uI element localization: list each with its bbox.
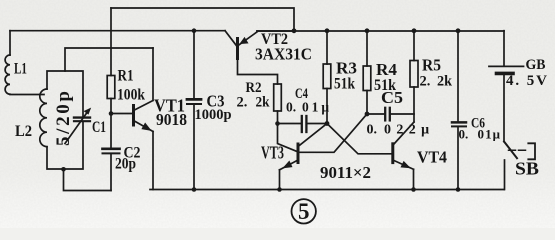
svg-text:GB: GB	[526, 57, 546, 73]
wire R2 to VT3 base	[278, 124, 298, 152]
node tank bottom	[61, 167, 66, 172]
node R3 bottom / VT3 collector	[325, 121, 330, 126]
node R5 top	[412, 28, 417, 33]
svg-text:1000p: 1000p	[195, 107, 232, 123]
transistor VT1 9018	[134, 48, 154, 190]
transistor VT2 3AX31C	[225, 31, 294, 84]
svg-text:100k: 100k	[117, 87, 145, 104]
node C3 top	[192, 28, 197, 33]
wire base VT1	[111, 113, 132, 115]
svg-text:VT3: VT3	[261, 143, 284, 163]
svg-text:0.: 0.	[286, 100, 296, 115]
svg-text:5: 5	[298, 199, 310, 224]
svg-text:5/20p: 5/20p	[53, 91, 74, 146]
wire tank bottom stub	[64, 169, 112, 191]
svg-text:01μ: 01μ	[478, 127, 501, 142]
tank box wires	[47, 71, 83, 169]
resistor R4	[363, 31, 371, 114]
node C6 bottom	[456, 187, 461, 192]
capacitor C2	[103, 114, 120, 191]
resistor R1	[107, 8, 115, 114]
wire bottom rail	[150, 189, 504, 191]
svg-text:9011×2: 9011×2	[320, 163, 371, 182]
resistor R2	[274, 84, 282, 124]
wire top rail upper	[111, 8, 294, 31]
capacitor C3	[187, 31, 201, 190]
capacitor C4	[278, 116, 328, 132]
svg-text:2.: 2.	[237, 95, 248, 111]
resistor R5	[410, 31, 418, 122]
svg-text:01μ: 01μ	[302, 100, 329, 115]
svg-text:SB: SB	[515, 159, 539, 179]
switch SB	[504, 142, 535, 190]
svg-text:4. 5V: 4. 5V	[506, 73, 547, 89]
wire cross coupling B	[299, 114, 367, 152]
svg-text:R5: R5	[422, 56, 441, 75]
inductor L1	[5, 31, 44, 95]
node base VT1	[109, 111, 114, 116]
svg-text:2k: 2k	[256, 95, 271, 111]
svg-text:0.: 0.	[367, 123, 378, 138]
svg-text:3AX31C: 3AX31C	[255, 45, 312, 64]
node C3 bottom	[192, 187, 197, 192]
svg-text:9018: 9018	[156, 110, 187, 129]
inductor L2	[40, 89, 47, 147]
wire tank top feed	[65, 48, 153, 71]
svg-text:C1: C1	[92, 119, 106, 136]
node VT3 emitter	[277, 187, 282, 192]
svg-text:2.: 2.	[420, 74, 431, 90]
svg-text:L2: L2	[15, 123, 32, 140]
battery GB	[489, 31, 524, 142]
node R3 top	[325, 28, 330, 33]
svg-text:20p: 20p	[115, 156, 136, 173]
svg-text:L1: L1	[14, 61, 27, 78]
transistor VT3	[280, 124, 328, 190]
resistor R3	[323, 31, 331, 124]
node R2 bottom	[275, 121, 280, 126]
wire top rail left (supply rail)	[10, 30, 225, 32]
capacitor C6	[452, 31, 466, 190]
svg-text:2k: 2k	[437, 74, 453, 90]
svg-text:C5: C5	[381, 88, 403, 107]
wire cross coupling A	[327, 124, 392, 154]
svg-text:R1: R1	[118, 68, 134, 85]
svg-text:VT4: VT4	[417, 148, 447, 167]
svg-text:51k: 51k	[334, 76, 355, 93]
wire top rail right	[257, 30, 504, 32]
figure number 5	[292, 199, 316, 223]
node R4 bottom	[365, 112, 370, 117]
node R4 top	[365, 28, 370, 33]
svg-text:0.: 0.	[459, 127, 469, 142]
node VT2 emitter rail	[292, 28, 297, 33]
node VT4 emitter	[411, 187, 416, 192]
node C6 top	[456, 28, 461, 33]
transistor VT4	[393, 122, 414, 190]
variable capacitor C1 5/20p	[65, 108, 91, 143]
capacitor C5	[367, 108, 414, 121]
